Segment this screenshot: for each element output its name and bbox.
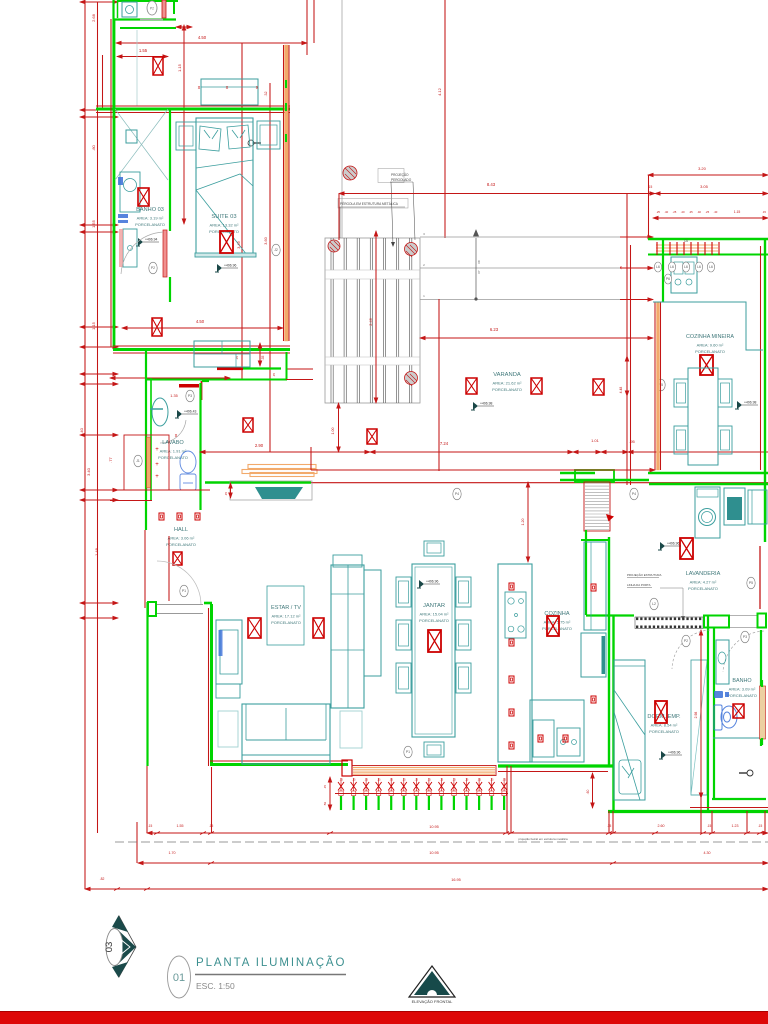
svg-text:4.50: 4.50 (198, 35, 207, 40)
tv console outline (230, 481, 312, 500)
roof slope marker (474, 230, 479, 299)
svg-text:J2: J2 (274, 248, 278, 252)
dim vertical dorm emp (700, 630, 702, 798)
door handle banho (747, 770, 753, 776)
svg-text:ESC. 1:50: ESC. 1:50 (196, 981, 235, 991)
door circle P4 left (453, 488, 461, 500)
outlet squares kitchen column (509, 583, 514, 590)
svg-text:+: + (155, 474, 159, 480)
closet corridor door strip (147, 437, 151, 488)
svg-text:P5: P5 (749, 581, 753, 585)
closet corridor walls (124, 435, 169, 490)
svg-text:P3: P3 (743, 635, 747, 639)
svg-text:P2: P2 (150, 7, 154, 11)
wall dorm/banho divider (707, 616, 709, 811)
outlet squares kitchen right (591, 584, 596, 591)
dim vertical x439 (438, 299, 440, 471)
wall dorm bottom (608, 810, 768, 813)
wall cozinha mineira top (648, 238, 768, 240)
north arrow (104, 916, 136, 978)
svg-text:.15: .15 (364, 778, 368, 782)
fixture faucet banho blue (714, 691, 729, 698)
fixture sink cozinha mineira (671, 257, 697, 293)
dim .95 (601, 451, 628, 453)
furniture sofa right estar (331, 565, 364, 708)
furniture bed suite03 (196, 118, 253, 255)
sliding door symbols (338, 778, 507, 811)
fixture dryer lavanderia (724, 488, 745, 525)
svg-text:PORCELANATO: PORCELANATO (695, 349, 725, 354)
dim tick top right (176, 26, 192, 28)
closet dorm emp (691, 660, 707, 795)
wall kitchen right (608, 537, 610, 765)
leader text pergola metalica (338, 199, 408, 209)
svg-text:.15: .15 (648, 185, 653, 189)
svg-text:.25: .25 (705, 210, 709, 214)
svg-text:PORCELANATO: PORCELANATO (166, 542, 196, 547)
counter cozinha mineira (653, 302, 763, 350)
svg-text:PROJEÇÃO ESTRUTURA: PROJEÇÃO ESTRUTURA (627, 572, 661, 577)
svg-text:3.40: 3.40 (86, 467, 91, 476)
dim vertical x270 (269, 83, 271, 452)
light symbol suite03 (220, 231, 233, 253)
furniture nightstand left suite03 (176, 122, 196, 150)
column circle top outside (343, 166, 357, 180)
dim left column vertical A (84, 2, 86, 889)
svg-text:1.40: 1.40 (79, 427, 84, 436)
svg-text:.15: .15 (323, 785, 327, 790)
dim line y374 (110, 377, 230, 379)
dim left ticks (80, 1, 118, 3)
svg-text:+496.96: +496.96 (667, 542, 679, 546)
svg-text:AREA: 17.12 m²: AREA: 17.12 m² (272, 614, 302, 619)
svg-text:2.68: 2.68 (91, 13, 96, 22)
circle P6 (664, 274, 671, 284)
svg-text:.15: .15 (502, 778, 506, 782)
counter kitchen main (498, 564, 532, 762)
wall y615 segment (586, 614, 634, 616)
svg-text:.15: .15 (352, 778, 356, 782)
level flag varanda (471, 402, 494, 411)
svg-text:.15: .15 (607, 824, 612, 828)
bed foot bar suite03 (195, 253, 256, 257)
svg-text:PORCELANATO: PORCELANATO (135, 222, 165, 227)
light symbol hall right (243, 418, 253, 432)
box kitchen bottom (533, 720, 554, 757)
svg-text:.15: .15 (707, 824, 712, 828)
wall lavabo top (217, 367, 281, 369)
fixture sink kitchen (557, 728, 580, 756)
svg-text:PORCELANATO: PORCELANATO (419, 618, 449, 623)
light symbol cozinha mineira (700, 355, 713, 375)
svg-text:8.43: 8.43 (487, 182, 496, 187)
svg-text:10.95: 10.95 (429, 851, 439, 855)
svg-text:.25: .25 (672, 210, 676, 214)
wall hall stub (168, 536, 170, 601)
svg-text:PORCELANATO: PORCELANATO (492, 387, 522, 392)
svg-text:AREA: 9.60 m²: AREA: 9.60 m² (697, 343, 724, 348)
wall banho right (760, 630, 762, 687)
column circle pergola top-right (405, 243, 418, 256)
svg-text:.15: .15 (452, 778, 456, 782)
title circle 01 (168, 956, 191, 998)
wall lavabo right top red (201, 381, 203, 400)
dim vertical 4.12 (444, 0, 446, 238)
dim vertical 1.20 (527, 482, 529, 562)
circles L6 row (654, 262, 661, 272)
dim 8.43 left drop (338, 194, 340, 241)
banho counter line (713, 737, 760, 739)
light symbol varanda 3 (593, 379, 604, 395)
svg-text:.15: .15 (402, 778, 406, 782)
shower banho03 (115, 109, 168, 180)
svg-text:P2: P2 (684, 639, 688, 643)
pergola frame (325, 238, 420, 403)
svg-text:AREA: 15.04 m²: AREA: 15.04 m² (420, 612, 450, 617)
tv console shelves orange (242, 465, 317, 477)
svg-text:.40: .40 (681, 210, 685, 214)
svg-text:L6: L6 (670, 265, 674, 269)
svg-text:P4: P4 (455, 492, 459, 496)
wall band by stair (575, 470, 614, 482)
svg-text:.15: .15 (440, 778, 444, 782)
dim 1.00 below pergola (338, 403, 340, 452)
light symbol jantar (428, 630, 441, 652)
svg-text:PORCELANATO: PORCELANATO (158, 455, 188, 460)
window band cozinha mineira (656, 245, 718, 251)
svg-text:03: 03 (104, 942, 115, 953)
svg-text:projeção beiral em estrutura m: projeção beiral em estrutura metálica (518, 837, 568, 841)
dim 7.24 (370, 451, 573, 453)
window circle J2 (272, 244, 280, 256)
construction line gray x342 (341, 0, 343, 238)
svg-text:2.60: 2.60 (658, 824, 665, 828)
svg-text:L6: L6 (656, 265, 660, 269)
fixture washer lavanderia (695, 487, 720, 538)
svg-text:1.48: 1.48 (94, 547, 99, 556)
beiral dashed line (115, 841, 768, 843)
dim vertical x627 long (626, 193, 628, 485)
column circle pergola top-left (328, 240, 340, 252)
svg-text:BANHO: BANHO (732, 678, 751, 684)
svg-text:08: 08 (477, 260, 481, 264)
wall estar bottom (210, 763, 348, 766)
svg-text:P3: P3 (188, 394, 192, 398)
dim verticals below kitchen (506, 766, 508, 833)
cooktop kitchen (505, 592, 526, 638)
furniture side table right estar (340, 711, 362, 748)
svg-text:1.55: 1.55 (177, 824, 184, 828)
leader text pergolado (378, 169, 404, 183)
wall estar left (210, 604, 213, 766)
wall band below top room (113, 18, 176, 20)
fixture cabinet lavanderia (748, 490, 767, 524)
wall edge red x102 (102, 55, 104, 109)
svg-text:VARANDA: VARANDA (493, 372, 521, 378)
wall cozinha mineira left green upper (662, 238, 664, 302)
wall cozinha mineira top inner (648, 254, 768, 256)
svg-text:.15: .15 (377, 778, 381, 782)
svg-text:PERGOLADO: PERGOLADO (391, 178, 412, 182)
svg-text:.15: .15 (619, 266, 623, 271)
svg-text:L6: L6 (709, 265, 713, 269)
svg-text:.15: .15 (762, 210, 766, 214)
light symbol banho03 (138, 188, 149, 206)
svg-text:P4: P4 (632, 492, 636, 496)
level flag cozinha mineira (735, 401, 758, 410)
door circle P3 bottom (741, 631, 749, 643)
door circle P2 banho03 (149, 262, 157, 274)
dim ticks lavanderia top (560, 469, 655, 471)
furniture nightstand right suite03 (257, 121, 280, 149)
door leaf top room (162, 0, 166, 18)
furniture closet suite top (201, 79, 258, 105)
svg-text:.40: .40 (697, 210, 701, 214)
fixture sink lavabo (152, 398, 168, 426)
fixture shower tray banho03 (123, 229, 137, 267)
furniture ottoman estar (216, 684, 240, 698)
svg-text:L2: L2 (652, 602, 656, 606)
circle P5 (657, 379, 665, 391)
svg-text:ESTAR / TV: ESTAR / TV (271, 605, 301, 611)
dim vertical pergola 2.49 (375, 238, 377, 403)
furniture sofa right back (364, 570, 381, 676)
svg-text:7.24: 7.24 (440, 441, 449, 446)
wall lavanderia corner (560, 473, 649, 480)
svg-text:+496.98: +496.98 (480, 402, 492, 406)
stair (585, 483, 609, 530)
wall kitchen top link (581, 539, 608, 541)
svg-text:.15: .15 (758, 824, 763, 828)
wall cozinha mineira left lower (654, 302, 656, 470)
svg-text:.59: .59 (323, 802, 327, 807)
svg-text:.15: .15 (427, 778, 431, 782)
tv set (255, 487, 303, 499)
column circle pergola bottom-right (405, 372, 418, 385)
svg-text:1.15: 1.15 (91, 321, 96, 330)
svg-text:PORCELANATO: PORCELANATO (688, 586, 718, 591)
dim row1 (147, 832, 768, 834)
furniture chair jantar bottom (424, 742, 444, 757)
wall cozinha mineira bottom (648, 472, 768, 474)
furniture chair jantar top (424, 541, 444, 556)
svg-text:BANHO 03: BANHO 03 (136, 207, 164, 213)
svg-text:AREA: 13.32 m²: AREA: 13.32 m² (210, 223, 240, 228)
svg-text:4.48: 4.48 (619, 387, 623, 394)
level flag dorm emp (659, 751, 682, 760)
furniture sofa bottom estar (242, 704, 330, 764)
svg-text:3.20: 3.20 (698, 166, 707, 171)
door circle P1 hall (180, 585, 188, 597)
wall lavabo inner left (150, 378, 152, 500)
svg-text:L6: L6 (697, 265, 701, 269)
door lintel lavabo (179, 384, 199, 388)
svg-text:P6: P6 (666, 277, 670, 281)
bottom red bar (0, 1012, 768, 1024)
wall top room inner (117, 0, 119, 18)
svg-text:.32: .32 (264, 92, 268, 97)
svg-text:1.55: 1.55 (139, 48, 148, 53)
dim short verticals top right (306, 0, 308, 55)
fixture vanity banho (716, 640, 729, 684)
svg-text:PORCELANATO: PORCELANATO (271, 620, 301, 625)
svg-text:.80: .80 (91, 144, 96, 150)
level flag lavanderia (658, 542, 681, 551)
svg-text:PORCELANATO: PORCELANATO (649, 729, 679, 734)
room label box estar (267, 586, 304, 645)
svg-text:.40: .40 (664, 210, 668, 214)
door leaf banho03 (163, 230, 167, 277)
svg-text:P2: P2 (151, 266, 155, 270)
dim 1.55 top (117, 56, 168, 58)
dim ticks suite bottom (259, 343, 261, 366)
title underline (195, 974, 346, 976)
entrance door arc (157, 561, 201, 604)
furniture side table left estar (218, 711, 238, 747)
svg-text:2.98: 2.98 (694, 712, 698, 719)
dim row2 (138, 862, 768, 864)
wall window link x286 (286, 352, 288, 379)
light symbol varanda left edge (367, 429, 377, 444)
dim line y471 (311, 469, 655, 471)
door arc banho03 (121, 232, 163, 274)
svg-text:2.90: 2.90 (255, 443, 264, 448)
svg-text:.40: .40 (713, 210, 717, 214)
furniture table jantar (412, 564, 455, 737)
dim vertical x242 (241, 43, 243, 379)
wall lavabo right (199, 383, 201, 510)
sliding dim left (329, 777, 331, 810)
dim 6.23 (420, 337, 653, 339)
svg-text:4.50: 4.50 (196, 319, 205, 324)
wall tv green (205, 481, 311, 483)
furniture chairs jantar (396, 577, 411, 607)
svg-text:PROJEÇÃO: PROJEÇÃO (391, 172, 409, 177)
furniture armchair estar (216, 620, 242, 684)
svg-text:01: 01 (173, 972, 185, 984)
level flag jantar (417, 580, 440, 589)
door handle suite (248, 140, 254, 146)
svg-text:+496.94: +496.94 (145, 238, 157, 242)
furniture chairs cozinha mineira (674, 379, 688, 407)
light symbol cozinha (547, 616, 559, 636)
door arc lavabo (160, 420, 186, 443)
counter kitchen bottom (530, 700, 584, 762)
shower glass line banho03 top (136, 30, 138, 106)
svg-text:.15: .15 (414, 778, 418, 782)
circle L2 (650, 598, 658, 610)
light symbol varanda 1 (466, 378, 477, 394)
wall lavanderia top (649, 483, 768, 485)
pergola slats (331, 238, 412, 403)
svg-text:HALL: HALL (174, 527, 188, 533)
svg-text:.25: .25 (656, 210, 660, 214)
svg-text:COZINHA MINEIRA: COZINHA MINEIRA (686, 334, 734, 340)
svg-text:+: + (155, 462, 159, 468)
bed blanket suite03 (196, 160, 253, 255)
dim tick tv (230, 483, 232, 498)
bed pillows suite03 (199, 125, 250, 151)
svg-text:P1: P1 (182, 589, 186, 593)
svg-text:+496.96: +496.96 (668, 751, 680, 755)
svg-text:+496.96: +496.96 (426, 580, 438, 584)
svg-text:07: 07 (477, 270, 481, 274)
svg-text:AREA: 4.27 m²: AREA: 4.27 m² (690, 580, 717, 585)
wall cozinha mineira right red lower (759, 546, 761, 609)
svg-text:3.60: 3.60 (264, 237, 268, 244)
furniture table cozinha mineira (688, 368, 718, 465)
light symbol varanda 2 (531, 378, 542, 394)
level flag lavabo (175, 410, 198, 419)
furniture wardrobe suite03 (194, 341, 250, 367)
svg-text:.15: .15 (224, 492, 228, 497)
svg-text:C6: C6 (684, 239, 688, 243)
wall band second (120, 27, 176, 29)
wall left corridor lower (144, 530, 146, 608)
svg-text:AREA: 3.19 m²: AREA: 3.19 m² (137, 216, 164, 221)
svg-text:.15: .15 (477, 778, 481, 782)
light symbol lavanderia (680, 538, 693, 559)
dim 3.05 (655, 193, 768, 195)
door circle bottom center (404, 746, 412, 758)
dim connector x701 (700, 798, 702, 833)
dim 4.50 top (116, 42, 307, 44)
svg-text:P1: P1 (406, 750, 410, 754)
wall dorm left upper (612, 616, 614, 810)
fixture washbasin top room (122, 2, 137, 17)
svg-text:3.49: 3.49 (237, 241, 241, 248)
door arc dorm (672, 630, 710, 669)
fixture toilet top room (147, 1, 157, 15)
dim lines corridor bottom (110, 489, 210, 491)
furniture sofa top band (333, 555, 362, 567)
dim verticals connectors bottom (146, 766, 148, 833)
svg-text:+496.96: +496.96 (224, 264, 236, 268)
wall banho03/suite divider lower (169, 277, 171, 302)
svg-text:6.23: 6.23 (490, 327, 499, 332)
svg-text:.15: .15 (490, 778, 494, 782)
svg-text:+496.43: +496.43 (184, 410, 196, 414)
svg-text:1.23: 1.23 (732, 824, 739, 828)
svg-text:1.55: 1.55 (91, 219, 96, 228)
svg-text:PÉRGOLA EM ESTRUTURA METÁLICA: PÉRGOLA EM ESTRUTURA METÁLICA (340, 201, 399, 206)
svg-text:10.95: 10.95 (429, 825, 439, 829)
light symbol dorm emp (655, 701, 667, 723)
dim line y483 (311, 482, 768, 484)
svg-text:JANTAR: JANTAR (423, 603, 445, 609)
dim 4.50 suite bottom (122, 327, 283, 329)
svg-text:.15: .15 (465, 778, 469, 782)
svg-text:AREA: 21.62 m²: AREA: 21.62 m² (493, 381, 523, 386)
level flag banho03 (136, 238, 159, 247)
svg-text:+: + (155, 447, 159, 453)
dim row3 (85, 888, 768, 890)
svg-text:.82: .82 (100, 877, 105, 881)
wall banho03 left (113, 19, 116, 347)
door circle P4 right (630, 488, 638, 500)
svg-text:2.49: 2.49 (369, 318, 373, 325)
svg-text:+496.98: +496.98 (744, 401, 756, 405)
svg-text:.15: .15 (389, 778, 393, 782)
door circle P3 lavabo (186, 390, 194, 402)
roof line arrows right (620, 236, 653, 238)
fixture sink banho03 (120, 172, 140, 212)
wall cozinha mineira right (764, 239, 766, 542)
wall top room right (173, 0, 175, 14)
dim 3.20 (648, 174, 768, 176)
svg-text:AREA: 1.91 m²: AREA: 1.91 m² (160, 449, 187, 454)
dim vertical x184 (183, 25, 185, 224)
